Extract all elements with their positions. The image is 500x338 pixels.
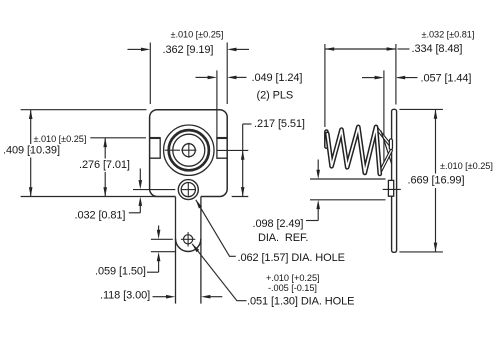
rivet centerline <box>383 188 401 190</box>
dimension .118 left arrow line <box>153 296 168 298</box>
side plate outline <box>392 109 397 252</box>
dimension .098 lower arrow line <box>317 209 319 221</box>
dimension .059 elbow <box>147 271 159 273</box>
dimension .409 top extension <box>21 109 147 111</box>
arrow .118 left <box>166 295 175 299</box>
dimension .032 hole centerline extension <box>133 189 175 191</box>
dimension .049 extension line <box>216 70 218 138</box>
svg-text:(2) PLS: (2) PLS <box>257 90 294 102</box>
arrow .049 right <box>227 76 236 80</box>
spring inner circle <box>173 134 205 166</box>
plate body front view <box>150 110 228 197</box>
dimension bottom extension (shared .409/.276/.032) <box>21 196 156 198</box>
dimension .217 extension top <box>217 149 248 151</box>
arrow .669 up <box>434 109 438 118</box>
arrow .098 up <box>316 200 320 209</box>
arrow .032 down <box>139 180 143 189</box>
dimension .669 top extension <box>399 108 443 110</box>
arrowheads <box>29 47 437 298</box>
hole .062 inner circle <box>181 183 195 197</box>
svg-text:+.010 [+0.25]: +.010 [+0.25] <box>266 273 320 283</box>
dimension .276 top extension <box>90 137 146 139</box>
arrow .409 down <box>29 187 33 196</box>
svg-text:±.010 [±0.25]: ±.010 [±0.25] <box>34 134 87 144</box>
svg-text:.118 [3.00]: .118 [3.00] <box>100 289 150 301</box>
dimension .032 elbow <box>129 212 141 214</box>
arrow .362 right <box>227 48 236 52</box>
dimension .059 tab bottom extension <box>151 251 176 253</box>
arrow leader .051 <box>192 244 199 252</box>
svg-text:±.010 [±0.25]: ±.010 [±0.25] <box>171 29 224 39</box>
dimension .059 hole centerline extension <box>151 238 173 240</box>
tab bottom round end <box>176 239 201 252</box>
spring main zigzag coil <box>327 127 380 174</box>
tab right edge + extension <box>200 197 202 304</box>
dimension .049 left arrow line <box>196 76 210 78</box>
hole .051 circle <box>184 235 193 244</box>
spring attachment fan strand 2 <box>381 131 392 164</box>
dimension .057 right arrow line <box>398 77 418 79</box>
left side ear notch <box>150 137 161 158</box>
svg-text:.098 [2.49]: .098 [2.49] <box>253 218 304 230</box>
dimension .334 right extension <box>395 44 397 105</box>
arrow .276 down <box>103 187 107 196</box>
rivet block on side plate <box>388 180 393 196</box>
arrow .049 left <box>208 76 217 80</box>
svg-text:.362 [9.19]: .362 [9.19] <box>163 44 214 56</box>
svg-text:.217 [5.51]: .217 [5.51] <box>254 118 305 130</box>
hole .062 crosshair <box>182 183 195 196</box>
arrow .032 up <box>139 197 143 206</box>
center hole circle <box>182 144 195 157</box>
svg-text:.057 [1.44]: .057 [1.44] <box>421 72 472 84</box>
leader .051 hole <box>192 244 246 301</box>
arrow .409 up <box>29 110 33 119</box>
arrow .059 down <box>157 230 161 239</box>
arrow .217 up <box>241 150 245 159</box>
arrow .669 down <box>434 243 438 252</box>
svg-text:.032 [0.81]: .032 [0.81] <box>75 209 126 221</box>
dimension .098 upper extension <box>310 178 386 180</box>
arrow .276 up <box>103 138 107 147</box>
dimension .049 right arrow line <box>234 76 247 78</box>
dimension .032 lower arrow line <box>139 205 141 213</box>
svg-text:±.032 [±0.81]: ±.032 [±0.81] <box>422 30 475 40</box>
dimension .057 extension <box>383 70 385 166</box>
svg-text:.051 [1.30] DIA. HOLE: .051 [1.30] DIA. HOLE <box>247 296 354 308</box>
spring coil thick circle <box>169 130 209 170</box>
right side ear notch <box>217 137 227 158</box>
dimension .362 left arrow <box>128 48 144 50</box>
dimension .057 left arrow line <box>362 77 376 79</box>
spring front coil capsule <box>324 132 329 147</box>
spring outer circle <box>164 125 214 175</box>
svg-text:-.005 [-0.15]: -.005 [-0.15] <box>268 283 317 293</box>
hole .051 crosshair <box>181 232 195 246</box>
dimension .334 leader to text <box>398 48 410 50</box>
dimension .362 right arrow <box>234 48 249 50</box>
dimension .032 upper arrow line <box>139 169 141 182</box>
arrow .334 left <box>325 47 334 51</box>
arrow .098 down <box>316 170 320 179</box>
arrow .362 left <box>141 48 150 52</box>
spring coil side view <box>326 127 391 174</box>
dimension .217 line <box>242 124 244 196</box>
svg-text:.669 [16.99]: .669 [16.99] <box>408 174 465 186</box>
dimension .334 line <box>325 48 396 50</box>
dimension .409 line <box>30 110 32 197</box>
dimension .118 right arrow line <box>210 296 223 298</box>
tab left edge + extension <box>175 197 177 304</box>
svg-text:.409 [10.39]: .409 [10.39] <box>3 145 60 157</box>
arrow .118 right <box>201 295 210 299</box>
dimension .098 elbow <box>306 220 318 222</box>
spring attachment fan strand 1 <box>377 128 391 146</box>
hole .062 outer circle <box>178 180 198 200</box>
dimension .217 extension bottom <box>232 196 249 198</box>
svg-text:.334 [8.48]: .334 [8.48] <box>412 43 463 55</box>
dimension .669 bottom extension <box>399 251 443 253</box>
DIMENSION .362 extension lines <box>149 43 151 105</box>
svg-text:.049 [1.24]: .049 [1.24] <box>252 72 303 84</box>
arrow .334 right <box>387 47 396 51</box>
arrow leader .062 <box>196 200 202 209</box>
dimension .098 lower extension <box>310 199 386 201</box>
arrow .057 left <box>375 76 384 80</box>
arrow .217 down <box>241 187 245 196</box>
svg-text:DIA. REF.: DIA. REF. <box>258 232 308 244</box>
svg-text:±.010 [±0.25]: ±.010 [±0.25] <box>440 161 493 171</box>
spring attachment fan strand 3 <box>380 151 391 172</box>
center crosshair <box>165 143 197 158</box>
arrow .059 up <box>157 252 161 261</box>
svg-text:.062 [1.57] DIA. HOLE: .062 [1.57] DIA. HOLE <box>238 252 345 264</box>
dimension .059 upper arrow line <box>158 226 160 232</box>
spring plate-face loop <box>389 141 393 149</box>
dimension .059 lower arrow line <box>158 260 160 273</box>
svg-text:.059 [1.50]: .059 [1.50] <box>95 266 146 278</box>
leader .062 hole <box>196 200 236 256</box>
svg-text:.276 [7.01]: .276 [7.01] <box>79 159 130 171</box>
dimension .276 line <box>104 138 106 197</box>
dimension .334 left extension <box>324 44 326 127</box>
dimension .217 elbow <box>243 123 252 125</box>
arrow .057 right <box>396 76 405 80</box>
dimension .669 line <box>435 109 437 252</box>
dimension .098 upper arrow line <box>317 160 319 171</box>
